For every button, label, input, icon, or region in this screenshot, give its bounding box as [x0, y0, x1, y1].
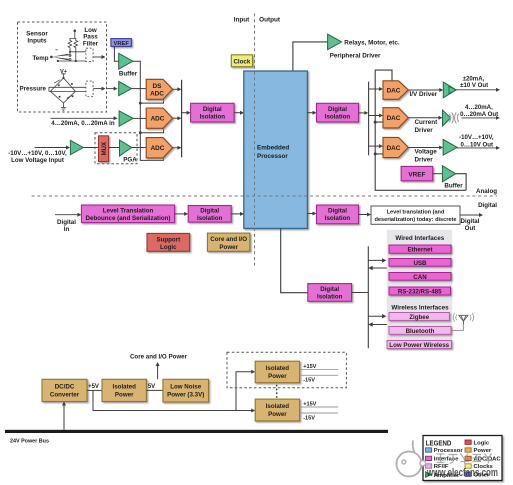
svg-text:Digital: Digital [328, 208, 347, 215]
svg-text:Temp: Temp [32, 55, 48, 62]
svg-text:deserialization) today: discre: deserialization) today: discrete [374, 217, 456, 223]
wire isolation to processor arrow (digital in) [231, 213, 242, 215]
wire IV output arrow [456, 89, 498, 91]
wire USB to bus arrow [370, 267, 387, 269]
antenna [459, 315, 468, 324]
svg-text:Analog: Analog [476, 188, 497, 195]
wire bus to DAC2 arrow [369, 115, 382, 117]
power isolated power 2 [255, 361, 299, 383]
wire DAC data bus [368, 82, 370, 156]
svg-text:Current: Current [415, 119, 439, 126]
svg-text:Clock: Clock [233, 59, 250, 66]
svg-text:Power: Power [115, 391, 134, 398]
svg-text:Zigbee: Zigbee [409, 314, 429, 321]
watermark chinese text [437, 454, 493, 464]
bridge sensor (pressure) [50, 77, 75, 103]
svg-text:Input: Input [234, 16, 250, 23]
svg-text:-15V: -15V [303, 378, 315, 384]
wire temp upper signal [70, 49, 86, 56]
wire bus to USB arrow [368, 259, 384, 261]
power core and io power [207, 233, 250, 251]
adc DS ADC [146, 79, 172, 99]
vref U6 VREF (output side) [401, 166, 433, 180]
svg-text:Voltage: Voltage [415, 149, 438, 156]
svg-text:4…20mA,: 4…20mA, [465, 104, 493, 111]
sensor inputs dashed box [18, 22, 107, 112]
wire PGA to ADC3 [132, 147, 147, 149]
svg-text:24V Power Bus: 24V Power Bus [10, 439, 49, 445]
node temp lower [75, 60, 77, 62]
svg-text:www.elecfans.com: www.elecfans.com [426, 467, 498, 479]
svg-text:Isolation: Isolation [200, 113, 226, 120]
svg-text:Digital: Digital [200, 207, 219, 214]
svg-text:Core and I/O: Core and I/O [210, 236, 247, 243]
svg-text:Buffer: Buffer [444, 183, 463, 190]
adc ADC3 [146, 138, 172, 158]
svg-text:Power (3.3V): Power (3.3V) [167, 391, 204, 398]
svg-text:VREF: VREF [408, 171, 425, 178]
logic support logic [147, 233, 190, 251]
svg-text:5V: 5V [148, 384, 155, 390]
wire core power arrow up [157, 364, 159, 379]
isolation U8 Digital Isolation (digital out) [317, 205, 359, 224]
node temp rail top [74, 30, 77, 33]
resistor R2 (temp pullup) [74, 40, 78, 49]
svg-text:ADC: ADC [151, 116, 165, 123]
wire isolation to processor arrow [234, 112, 242, 114]
svg-text:In: In [64, 226, 70, 233]
svg-text:Level translation (and: Level translation (and [387, 210, 445, 216]
svg-text:RS-232/RS-485: RS-232/RS-485 [398, 289, 442, 296]
svg-text:Logic: Logic [474, 440, 490, 446]
svg-text:Wired Interfaces: Wired Interfaces [395, 235, 444, 242]
interface CAN [389, 273, 451, 281]
label voltage out values [459, 134, 494, 148]
svg-text:USB: USB [413, 260, 427, 267]
legend box [423, 436, 502, 481]
wire VREF to buffer2 [433, 173, 443, 175]
svg-text:Low Power Wireless: Low Power Wireless [389, 342, 449, 349]
wire DAC2 to current amp [408, 117, 440, 119]
label Digital Out [461, 218, 480, 232]
wire VREF to buffer [114, 47, 118, 62]
node ref rail DAC2 [374, 121, 377, 124]
svg-text:Isolated: Isolated [266, 403, 290, 410]
power isolated power 3 [255, 399, 299, 421]
svg-text:Wireless Interfaces: Wireless Interfaces [391, 304, 449, 311]
label Sensor Inputs [26, 30, 48, 44]
svg-text:Buffer: Buffer [119, 70, 138, 77]
svg-text:Low Noise: Low Noise [170, 384, 201, 391]
svg-text:Low Voltage Input: Low Voltage Input [11, 157, 64, 164]
amplifier PGA [120, 140, 132, 156]
legend swatch Other [465, 472, 490, 478]
wire isolated to low noise [146, 389, 163, 391]
wire processor to out isolation arrow [307, 112, 314, 114]
wire A1 to MUX [83, 147, 98, 149]
svg-text:Digital: Digital [320, 286, 339, 293]
label IV out values [460, 76, 488, 90]
svg-text:Embedded: Embedded [257, 145, 289, 152]
label Voltage Driver [415, 149, 438, 164]
label current out values [460, 104, 498, 118]
svg-text:ADC: ADC [151, 145, 165, 152]
wire iso2 +15V [300, 368, 339, 370]
wire dotted expansion [276, 385, 278, 398]
label Digital In [57, 219, 76, 233]
svg-text:DC/DC: DC/DC [55, 384, 75, 391]
amplifier voltage driver [443, 139, 457, 155]
svg-text:Peripheral Driver: Peripheral Driver [330, 53, 381, 60]
svg-text:Pressure: Pressure [20, 86, 47, 93]
node ref tap 1 [139, 102, 142, 105]
legend swatch Power [465, 448, 492, 454]
interfaces panel [387, 230, 452, 350]
amplifier A1 (low voltage input) [70, 140, 83, 154]
legend swatch Clocks [465, 464, 494, 470]
svg-text:Bluetooth: Bluetooth [406, 328, 435, 335]
wire DAC1 to IV amp [408, 89, 441, 91]
svg-text:Relays, Motor, etc.: Relays, Motor, etc. [344, 40, 400, 47]
amplifier I/V driver [443, 82, 456, 98]
svg-text:Power: Power [268, 411, 287, 418]
svg-text:-10V…+10V,: -10V…+10V, [459, 134, 494, 141]
node temp upper [69, 51, 71, 53]
svg-text:ADC: ADC [150, 91, 164, 98]
svg-text:Power: Power [474, 448, 492, 454]
svg-text:Isolated: Isolated [113, 384, 137, 391]
low pass filter sub-box (pressure) [86, 81, 93, 97]
legend swatch Amplifier [426, 472, 461, 479]
MUX PGA dashed box [95, 133, 137, 164]
node ref tap 2 [139, 131, 142, 134]
wire antenna to bluetooth [451, 325, 463, 331]
svg-text:PGA: PGA [123, 157, 137, 164]
svg-text:VREF: VREF [113, 41, 129, 47]
svg-text:Digital: Digital [328, 106, 347, 113]
power DC/DC converter [42, 379, 87, 401]
svg-text:0…10V Out: 0…10V Out [461, 141, 494, 148]
amplifier A3 (4-20mA) [119, 111, 133, 127]
isolation U5 Digital Isolation (analog out) [317, 103, 359, 122]
amplifier buffer2 [442, 166, 455, 182]
wire level translation to isolation arrow [175, 213, 187, 215]
wire MUX to PGA [109, 147, 120, 149]
svg-text:Isolated: Isolated [266, 365, 290, 372]
svg-text:Filter: Filter [83, 40, 99, 47]
wire processor to comm isolation [281, 228, 308, 292]
wire iso2 -15V [300, 374, 339, 376]
wire bus to zigbee arrow [368, 315, 384, 317]
wire analog digital dashed separator [32, 195, 497, 197]
isolation U7 Digital Isolation (digital in) [188, 206, 231, 223]
wire ADC3 to bus arrow [173, 147, 180, 149]
svg-text:Driver: Driver [415, 127, 434, 134]
processor U1 Embedded Processor [244, 71, 308, 228]
interface Ethernet [389, 245, 451, 254]
interface Low Power Wireless [387, 341, 452, 349]
wire temp top rail [70, 31, 76, 39]
legend swatch Logic [465, 440, 490, 446]
wire bus to DAC3 arrow [369, 145, 382, 147]
dac DAC3 [383, 137, 408, 157]
wire comm isolation to interface bus [352, 292, 369, 294]
amplifier A2 (pressure/temp) [119, 81, 132, 95]
svg-text:0…20mA Out: 0…20mA Out [460, 111, 498, 118]
svg-text:-15V: -15V [303, 415, 315, 421]
isolation U9 Digital Isolation (comm) [308, 284, 352, 302]
clock U4 [231, 55, 252, 67]
svg-text:Debounce (and Serialization): Debounce (and Serialization) [86, 215, 171, 222]
dac DAC1 [383, 81, 408, 100]
svg-text:Isolation: Isolation [317, 294, 343, 301]
dashed box expansion power [227, 352, 346, 388]
label Current Driver [415, 119, 439, 134]
wire temp output arrow [93, 56, 104, 58]
svg-text:Processor: Processor [257, 153, 288, 160]
wire ADC output bus [181, 80, 183, 158]
power isolated power 1 [102, 379, 146, 401]
wire buffer reference rail [133, 61, 164, 160]
svg-text:Output: Output [259, 16, 281, 23]
wire bus to DCDC arrow [63, 404, 65, 430]
node ref rail DAC3 [374, 152, 377, 155]
svg-text:CAN: CAN [413, 274, 427, 281]
mux MUX [99, 136, 109, 162]
svg-text:Power: Power [268, 373, 287, 380]
svg-text:Digital: Digital [478, 202, 497, 209]
wire pressure output arrow [93, 88, 104, 90]
svg-text:Ethernet: Ethernet [407, 247, 432, 254]
wire 4-20mA input arrow [50, 117, 115, 119]
wire interface bus [367, 246, 369, 348]
svg-text:DS: DS [153, 83, 163, 90]
wire 5V branch to isolated 2 and 3 [93, 372, 253, 411]
svg-text:DAC: DAC [387, 115, 401, 122]
wire iso3 -15V [300, 412, 339, 414]
wire DAC3 to voltage amp [408, 147, 441, 149]
svg-text:MUX: MUX [102, 142, 108, 155]
VREF U2 (input side) [111, 39, 131, 47]
svg-text:Isolation: Isolation [325, 113, 351, 120]
interface USB [389, 259, 451, 267]
wire zigbee to bus arrow [370, 324, 387, 326]
legend swatch Processor [426, 448, 464, 454]
svg-text:Core and I/O Power: Core and I/O Power [130, 353, 188, 360]
wire processor to out isolation arrow (digital out) [307, 213, 314, 215]
resistor R1 (temp pullup) [68, 40, 72, 49]
wire A3 to ADC2 [133, 117, 146, 119]
interface Bluetooth [389, 327, 451, 335]
wire 24V bus bar [5, 430, 388, 433]
wire voltage output arrow [457, 147, 498, 149]
wire DS ADC to bus arrow [173, 88, 180, 90]
block level translation [81, 205, 174, 223]
svg-text:Digital: Digital [203, 106, 222, 113]
wire A2 to DS ADC [132, 88, 147, 90]
svg-text:+5V: +5V [88, 384, 99, 390]
ground (bridge) [61, 103, 66, 110]
interface RS-232/RS-485 [389, 287, 451, 296]
wire ADC2 to bus arrow [173, 117, 180, 119]
isolation U3 Digital Isolation (analog in) [191, 103, 235, 122]
block level translation discrete [371, 206, 460, 224]
amplifier peripheral driver [328, 34, 342, 50]
svg-text:Processor: Processor [434, 448, 464, 454]
svg-text:LEGEND: LEGEND [426, 438, 452, 447]
amplifier buffer (VREF) [119, 53, 133, 69]
label Low Pass Filter [83, 27, 99, 47]
adc ADC2 [146, 108, 172, 128]
wire bridge outputs [49, 87, 86, 91]
legend swatch Interface [426, 456, 460, 462]
svg-text:DAC: DAC [387, 145, 401, 152]
wire bus to isolation arrow [182, 112, 189, 114]
wire DAC reference rail [375, 70, 466, 190]
wire digital out arrow [460, 214, 481, 216]
legend swatch RF/IF [426, 464, 449, 470]
wire DCDC to isolated power [87, 389, 102, 391]
wire V+ stub [61, 74, 65, 78]
wire buffer2 to ref rail [456, 174, 466, 191]
wire A2 input arrow [107, 88, 116, 90]
thermocouple TC1 [50, 50, 71, 61]
svg-text:Driver: Driver [415, 156, 434, 163]
svg-text:Isolation: Isolation [197, 215, 223, 222]
interface Zigbee [389, 313, 449, 321]
wire low voltage input arrow [35, 147, 68, 149]
wire processor to peripheral driver [293, 42, 328, 71]
svg-text:Support: Support [156, 236, 180, 243]
svg-text:Digital: Digital [57, 219, 76, 226]
wire temp lower signal [58, 49, 86, 62]
svg-text:Converter: Converter [50, 391, 80, 398]
svg-text:Inputs: Inputs [27, 38, 47, 45]
svg-text:4…20mA, 0…20mA in: 4…20mA, 0…20mA in [51, 120, 115, 127]
legend swatch ADC/DAC [465, 456, 501, 462]
amplifier current driver with transformer [443, 110, 459, 126]
wire current output arrow [462, 117, 499, 119]
dac DAC2 [383, 108, 408, 128]
svg-text:Logic: Logic [160, 244, 177, 251]
svg-text:Isolation: Isolation [325, 215, 351, 222]
wire iso3 +15V [300, 406, 339, 408]
svg-text:±10 V Out: ±10 V Out [460, 82, 488, 89]
svg-text:Power: Power [219, 244, 238, 251]
watermark logo [397, 441, 426, 477]
label low voltage input [8, 150, 67, 164]
svg-text:Sensor: Sensor [26, 30, 48, 37]
wire isolation to level translation out arrow [359, 214, 370, 216]
wire bus to DAC1 arrow [369, 88, 382, 90]
svg-text:DAC: DAC [387, 87, 401, 94]
power low noise power [163, 379, 209, 402]
svg-text:Level Translation: Level Translation [103, 207, 154, 214]
wire input output dashed separator [254, 14, 256, 266]
svg-text:I/V Driver: I/V Driver [410, 91, 438, 98]
wire digital in arrow [55, 214, 80, 216]
low pass filter sub-box (temp) [86, 48, 93, 61]
svg-text:Out: Out [465, 225, 476, 232]
wire out isolation to DAC bus arrow [359, 112, 367, 114]
